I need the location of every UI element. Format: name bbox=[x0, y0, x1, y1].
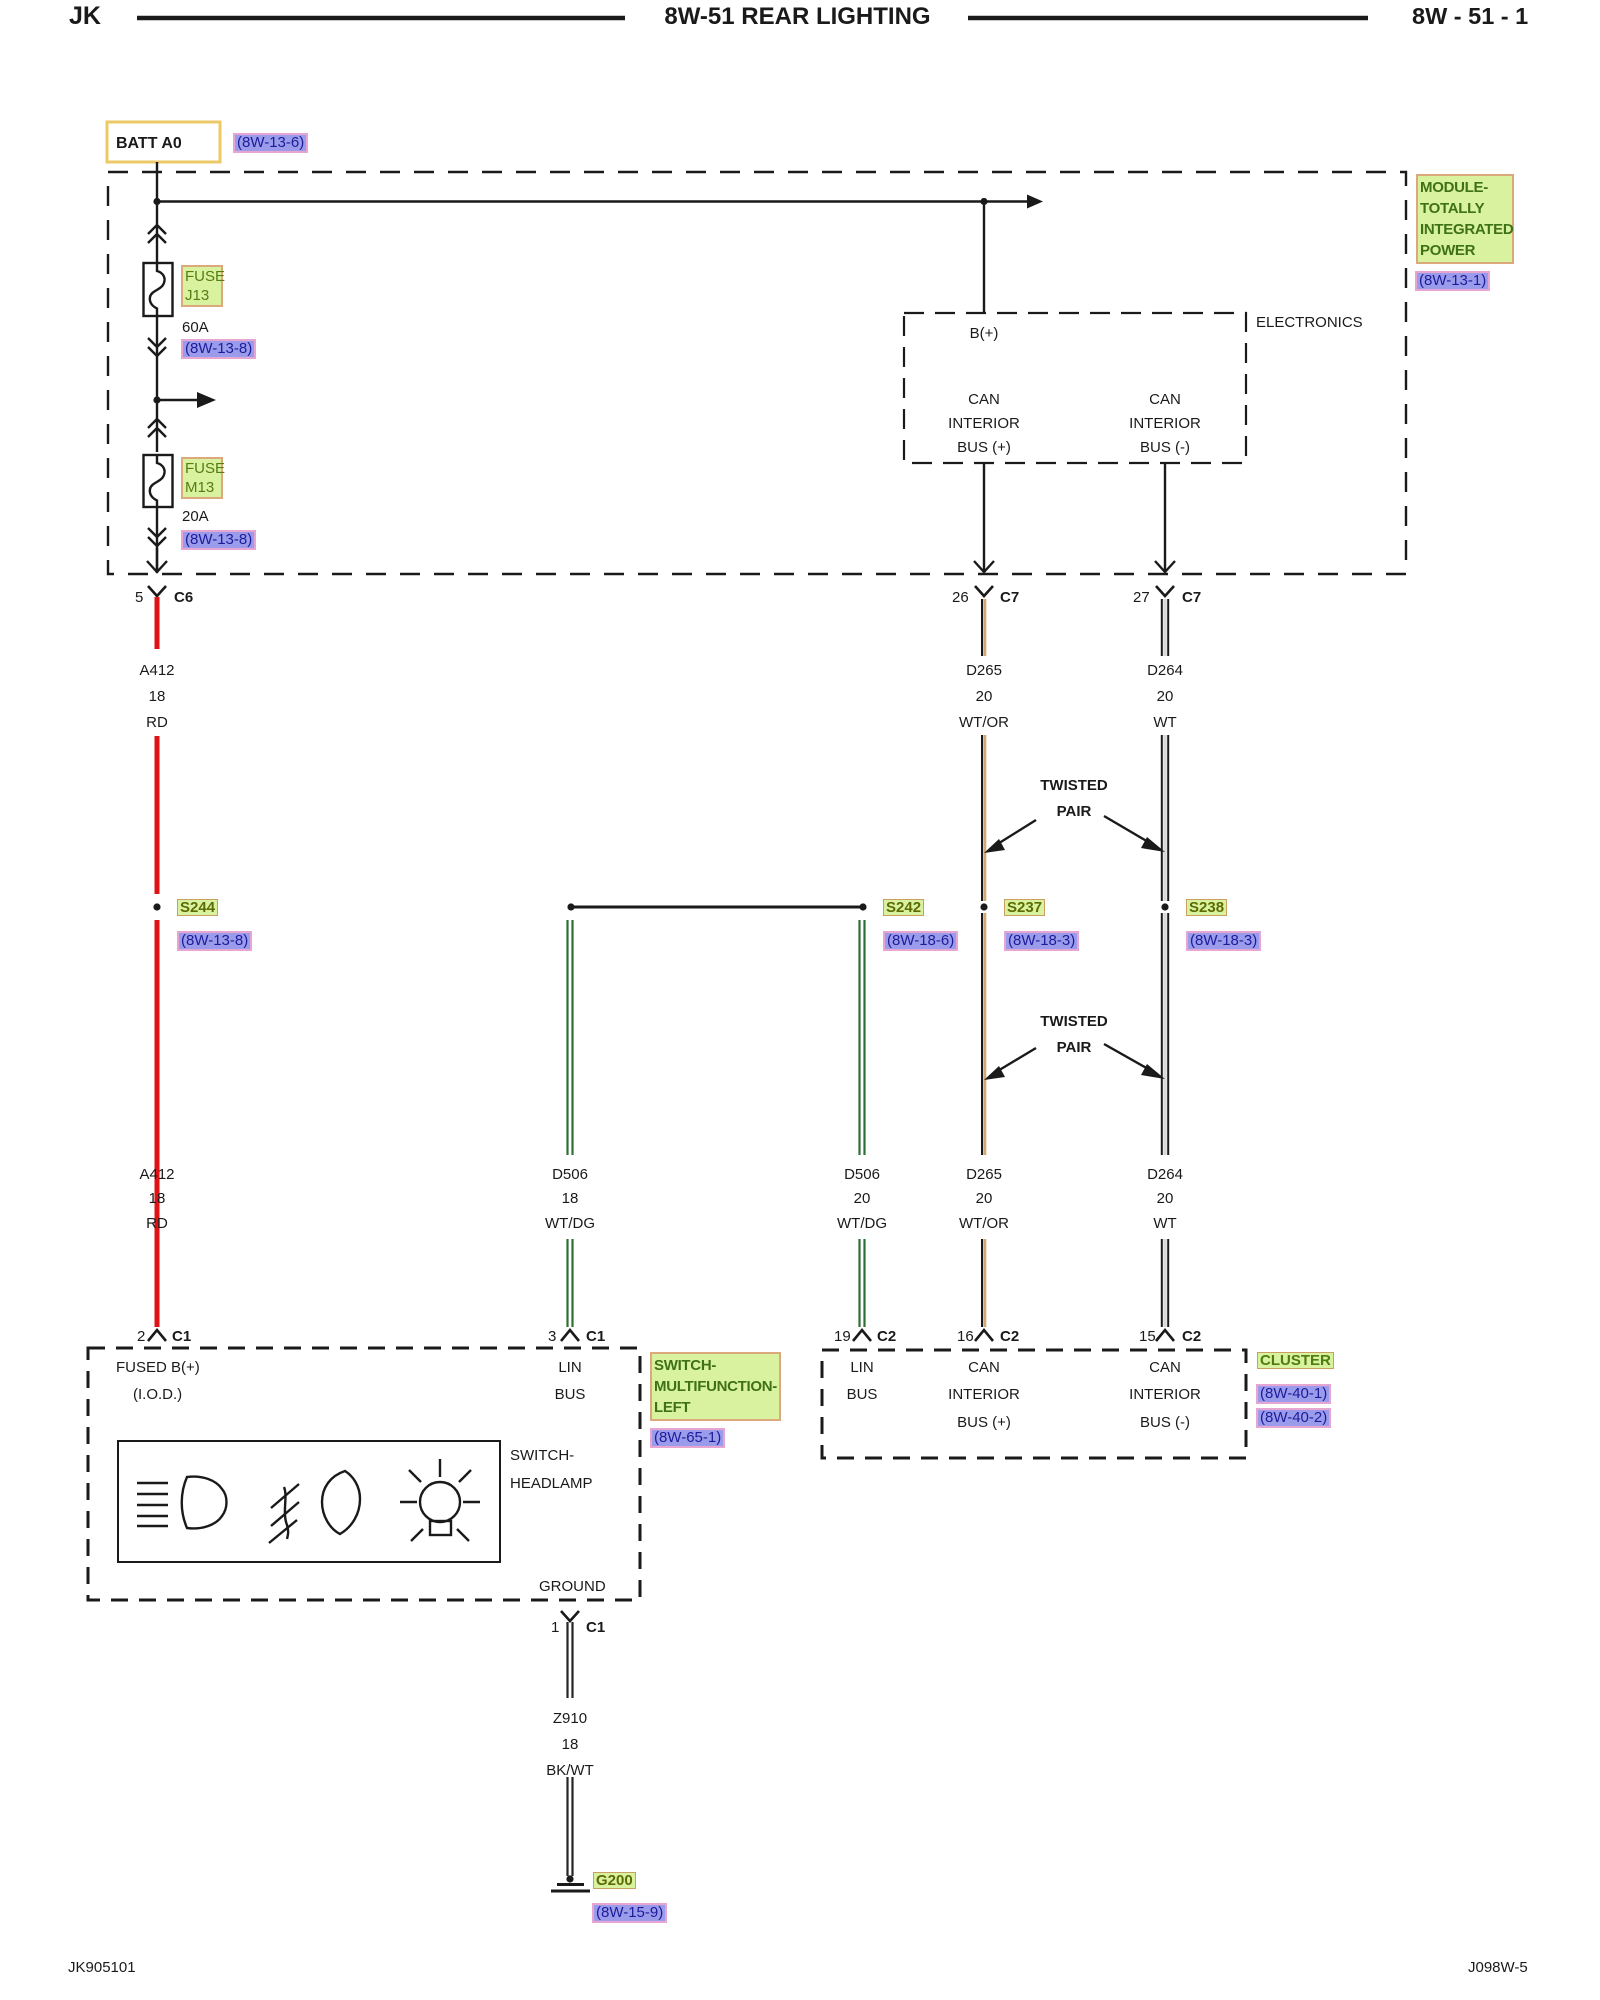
label SWITCH-HEADLAMP bbox=[510, 1447, 574, 1464]
open arrow leaving module at C6 bbox=[147, 548, 167, 572]
connector C2 pin 16 symbol bbox=[975, 1330, 993, 1341]
label S242 bbox=[883, 899, 924, 916]
low beam headlamp icon bbox=[137, 1477, 227, 1529]
chevron marker below fuse M13 bbox=[148, 528, 166, 546]
chevron marker below fuse J13 bbox=[148, 338, 166, 356]
label B(+) bbox=[934, 325, 1034, 342]
pin 1 connector C1 labels bbox=[551, 1619, 559, 1636]
junction node above electronics bbox=[980, 198, 987, 205]
label MODULE-TOTALLY INTEGRATED POWER bbox=[1416, 174, 1514, 264]
label S244 bbox=[177, 899, 218, 916]
LIN bus horizontal wire bbox=[567, 903, 863, 910]
wire CAN bus minus inside module bbox=[1155, 463, 1175, 572]
junction with branch arrow bbox=[153, 392, 216, 408]
connector C7 pin 26 symbol bbox=[975, 586, 993, 596]
wire fuse J13 to fuse M13 bbox=[156, 316, 158, 452]
connector C1 pin 1 symbol bbox=[561, 1611, 579, 1621]
pin 3 connector C1 labels bbox=[548, 1328, 556, 1345]
label TWISTED PAIR upper bbox=[1014, 777, 1134, 794]
wire label D506 20 WT/DG bbox=[802, 1166, 922, 1183]
splice S244 bbox=[153, 903, 160, 910]
label ELECTRONICS bbox=[1256, 314, 1363, 331]
bulb icon bbox=[400, 1459, 480, 1541]
pin 19 connector C2 labels bbox=[834, 1328, 851, 1345]
wire battery feed vertical from BATT A0 to fuse J13 bbox=[156, 162, 158, 264]
fog lamp icon bbox=[269, 1471, 360, 1543]
label 8W-13-8 upper bbox=[181, 339, 256, 359]
label 8W-18-6 bbox=[883, 931, 958, 951]
label 8W-13-1 bbox=[1415, 271, 1490, 291]
pin 26 connector C7 labels bbox=[952, 589, 969, 606]
ground G200 symbol bbox=[551, 1875, 590, 1891]
pin 16 connector C2 labels bbox=[957, 1328, 974, 1345]
label 8W-18-3 at S237 bbox=[1004, 931, 1079, 951]
wire label A412 18 RD lower bbox=[97, 1166, 217, 1183]
pin 15 connector C2 labels bbox=[1139, 1328, 1156, 1345]
wire label D264 20 WT lower bbox=[1105, 1166, 1225, 1183]
label 8W-40-1 bbox=[1256, 1384, 1331, 1404]
label G200 bbox=[593, 1872, 636, 1889]
pin 5 connector C6 labels bbox=[135, 589, 143, 606]
wire fuse M13 to connector C6 bbox=[156, 507, 158, 573]
wire label Z910 18 BK/WT bbox=[510, 1710, 630, 1727]
wire CAN bus plus inside module bbox=[974, 463, 994, 572]
cluster dashed box bbox=[822, 1350, 1246, 1458]
fuse J13 bbox=[144, 263, 173, 316]
wire horizontal battery feed across module bbox=[157, 200, 1027, 202]
wire D506 WT/DG to switch bbox=[568, 920, 573, 1327]
label BATT A0 bbox=[116, 135, 182, 152]
label 8W-13-8 at S244 bbox=[177, 931, 252, 951]
module TIPM dashed box bbox=[108, 172, 1406, 574]
wire D506 WT/DG to cluster bbox=[860, 920, 865, 1327]
pin 2 connector C1 labels bbox=[137, 1328, 145, 1345]
connector C1 pin 2 symbol bbox=[148, 1330, 166, 1341]
label FUSE J13 bbox=[181, 265, 223, 307]
label S238 bbox=[1186, 899, 1227, 916]
label S237 bbox=[1004, 899, 1045, 916]
label CAN INTERIOR BUS plus (module) bbox=[924, 391, 1044, 408]
label 8W-18-3 at S238 bbox=[1186, 931, 1261, 951]
chevron marker above fuse J13 bbox=[148, 225, 166, 243]
splice S238 bbox=[1161, 903, 1168, 910]
twisted pair callout lower bbox=[984, 1044, 1165, 1080]
label 8W-13-8 lower bbox=[181, 530, 256, 550]
header rules bbox=[137, 16, 625, 21]
connector C1 pin 3 symbol bbox=[561, 1330, 579, 1341]
wire label D264 20 WT upper bbox=[1105, 662, 1225, 679]
wire label A412 18 RD upper bbox=[97, 662, 217, 679]
label FUSED B(+) (I.O.D.) bbox=[116, 1359, 200, 1376]
fuse M13 bbox=[144, 455, 173, 507]
label GROUND bbox=[539, 1578, 606, 1595]
label CAN INTERIOR BUS minus (module) bbox=[1105, 391, 1225, 408]
label SWITCH-MULTIFUNCTION-LEFT bbox=[650, 1352, 781, 1421]
splice S242 bbox=[859, 903, 866, 910]
label 60A bbox=[182, 319, 209, 336]
label 20A bbox=[182, 508, 209, 525]
headlamp switch inner box bbox=[118, 1441, 500, 1562]
twisted pair callout upper bbox=[984, 816, 1165, 853]
label 8W-40-2 bbox=[1256, 1408, 1331, 1428]
label CAN INTERIOR BUS plus (cluster) bbox=[924, 1359, 1044, 1376]
pin 27 connector C7 labels bbox=[1133, 589, 1150, 606]
label 8W-15-9 bbox=[592, 1903, 667, 1923]
connector C2 pin 15 symbol bbox=[1156, 1330, 1174, 1341]
wire Z910 BK/WT ground bbox=[568, 1622, 573, 1876]
wire label D265 20 WT/OR lower bbox=[924, 1166, 1044, 1183]
wire label D265 20 WT/OR upper bbox=[924, 662, 1044, 679]
switch multifunction dashed box bbox=[88, 1348, 640, 1600]
connector C7 pin 27 symbol bbox=[1156, 586, 1174, 596]
wire A412 18 RD red bbox=[155, 597, 160, 1327]
battery feed box BATT A0 bbox=[107, 122, 220, 162]
label TWISTED PAIR lower bbox=[1014, 1013, 1134, 1030]
footer bbox=[68, 1959, 136, 1976]
wire D264 WT CAN minus bbox=[1162, 599, 1168, 1327]
splice S237 bbox=[980, 903, 987, 910]
connector C6 pin 5 symbol bbox=[148, 586, 166, 596]
label CAN INTERIOR BUS minus (cluster) bbox=[1105, 1359, 1225, 1376]
label LIN BUS (cluster) bbox=[802, 1359, 922, 1376]
label LIN BUS (switch) bbox=[510, 1359, 630, 1376]
wire drop from feed into electronics B(+) bbox=[983, 202, 985, 314]
chevron marker above fuse M13 bbox=[148, 419, 166, 437]
label 8W-65-1 bbox=[650, 1428, 725, 1448]
wire label D506 18 WT/DG bbox=[510, 1166, 630, 1183]
connector C2 pin 19 symbol bbox=[853, 1330, 871, 1341]
wire D265 WT/OR CAN plus bbox=[982, 599, 985, 1327]
header bbox=[69, 8, 101, 25]
label CLUSTER bbox=[1257, 1352, 1334, 1369]
label FUSE M13 bbox=[181, 457, 223, 499]
junction node on battery feed bbox=[153, 198, 160, 205]
label 8W-13-6 bbox=[233, 133, 308, 153]
electronics dashed box bbox=[904, 313, 1246, 463]
